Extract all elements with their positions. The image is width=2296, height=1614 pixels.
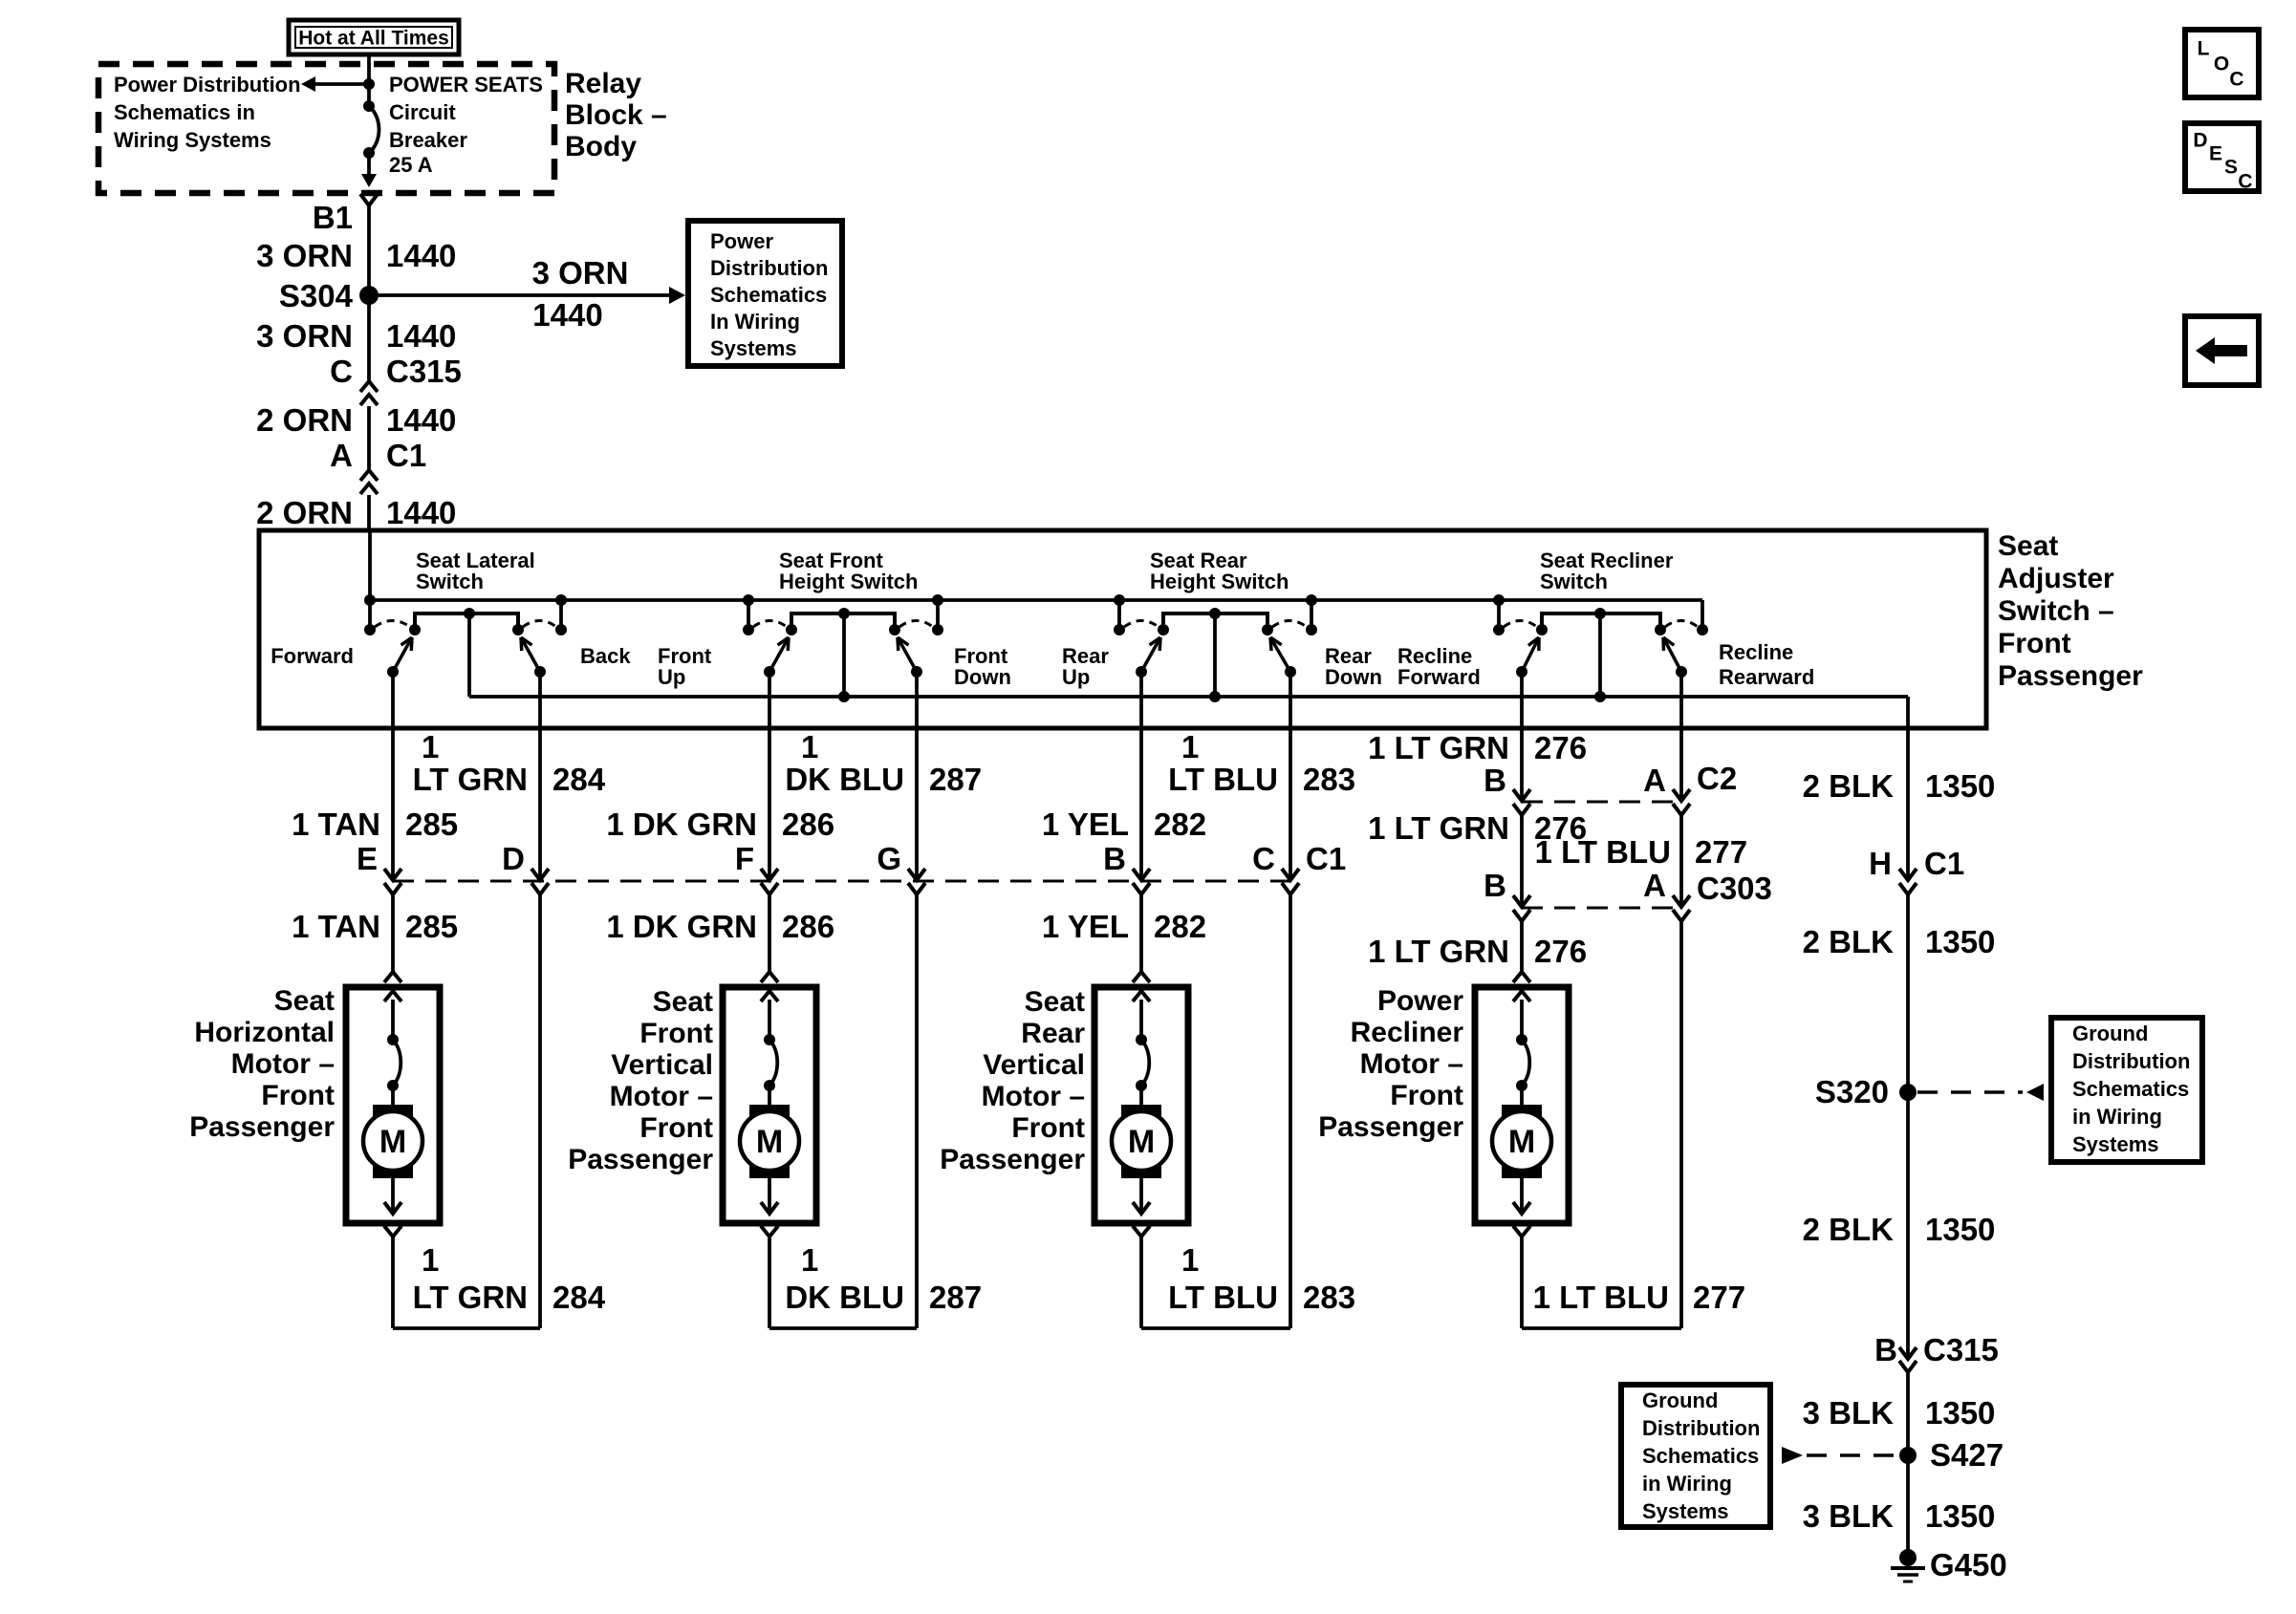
svg-text:A: A <box>1643 868 1666 903</box>
svg-text:Height Switch: Height Switch <box>1150 570 1289 593</box>
svg-text:C303: C303 <box>1697 871 1772 906</box>
svg-text:Systems: Systems <box>710 336 797 360</box>
svg-text:Up: Up <box>1062 665 1090 689</box>
svg-text:1350: 1350 <box>1925 768 1995 804</box>
svg-text:M: M <box>756 1124 783 1160</box>
svg-text:DK BLU: DK BLU <box>785 762 904 797</box>
svg-text:1 LT GRN: 1 LT GRN <box>1368 730 1509 765</box>
svg-text:Distribution: Distribution <box>2072 1049 2190 1073</box>
svg-text:Front: Front <box>639 1112 713 1144</box>
svg-text:Horizontal: Horizontal <box>194 1017 335 1048</box>
svg-text:Passenger: Passenger <box>1998 660 2143 692</box>
svg-text:Forward: Forward <box>271 644 354 668</box>
svg-text:Motor –: Motor – <box>610 1081 713 1112</box>
svg-text:in Wiring: in Wiring <box>2072 1105 2162 1129</box>
svg-text:G: G <box>877 841 901 876</box>
svg-text:C315: C315 <box>386 354 462 389</box>
svg-text:2 BLK: 2 BLK <box>1803 1212 1895 1247</box>
svg-text:G450: G450 <box>1930 1547 2007 1582</box>
svg-text:O: O <box>2214 54 2229 75</box>
svg-text:Body: Body <box>565 131 637 162</box>
svg-text:C: C <box>2238 171 2252 193</box>
svg-text:Power: Power <box>710 229 773 253</box>
svg-text:B: B <box>1874 1332 1897 1367</box>
svg-text:Height Switch: Height Switch <box>779 570 918 593</box>
svg-text:Up: Up <box>658 665 685 689</box>
svg-text:1: 1 <box>1181 1242 1199 1278</box>
svg-text:286: 286 <box>782 909 834 944</box>
svg-text:Schematics: Schematics <box>710 283 827 307</box>
svg-text:1 LT GRN: 1 LT GRN <box>1368 934 1509 969</box>
svg-text:3 ORN: 3 ORN <box>532 255 629 291</box>
svg-text:L: L <box>2198 38 2210 60</box>
svg-text:Power Distribution: Power Distribution <box>114 73 301 97</box>
svg-text:M: M <box>379 1124 406 1160</box>
svg-text:Seat: Seat <box>1998 530 2058 562</box>
svg-text:POWER SEATS: POWER SEATS <box>389 73 543 97</box>
svg-text:Motor –: Motor – <box>1360 1048 1463 1080</box>
svg-text:Rear: Rear <box>1021 1018 1085 1049</box>
svg-text:Front: Front <box>1390 1080 1463 1111</box>
svg-text:C: C <box>2229 69 2243 91</box>
svg-text:284: 284 <box>552 1280 606 1315</box>
svg-text:1 YEL: 1 YEL <box>1042 909 1129 944</box>
svg-text:1: 1 <box>422 1242 439 1278</box>
svg-text:Recline: Recline <box>1719 640 1793 664</box>
svg-text:M: M <box>1508 1124 1535 1160</box>
svg-text:in Wiring: in Wiring <box>1642 1472 1732 1496</box>
svg-text:277: 277 <box>1695 834 1747 870</box>
svg-text:Front: Front <box>1998 628 2071 659</box>
svg-text:282: 282 <box>1154 807 1206 842</box>
svg-text:Vertical: Vertical <box>983 1049 1085 1081</box>
svg-text:Seat: Seat <box>274 985 335 1017</box>
svg-text:Switch: Switch <box>1540 570 1608 593</box>
svg-text:B: B <box>1484 763 1506 798</box>
svg-text:3 BLK: 3 BLK <box>1803 1395 1895 1431</box>
svg-text:25 A: 25 A <box>389 153 433 177</box>
svg-text:C1: C1 <box>1306 841 1346 876</box>
svg-text:285: 285 <box>405 909 458 944</box>
svg-text:276: 276 <box>1534 730 1587 765</box>
svg-text:Passenger: Passenger <box>568 1144 713 1175</box>
svg-text:1: 1 <box>801 729 818 764</box>
svg-text:M: M <box>1128 1124 1155 1160</box>
svg-text:LT GRN: LT GRN <box>413 762 528 797</box>
svg-text:1350: 1350 <box>1925 1498 1995 1534</box>
svg-text:Hot at All Times: Hot at All Times <box>298 28 449 50</box>
svg-text:Seat: Seat <box>1025 986 1085 1018</box>
svg-text:LT BLU: LT BLU <box>1168 1280 1278 1315</box>
svg-text:Ground: Ground <box>2072 1022 2148 1045</box>
svg-text:283: 283 <box>1303 1280 1355 1315</box>
svg-text:C1: C1 <box>1924 846 1964 881</box>
svg-text:C1: C1 <box>386 438 426 473</box>
svg-text:Breaker: Breaker <box>389 128 467 152</box>
svg-text:1 LT BLU: 1 LT BLU <box>1535 834 1671 870</box>
svg-text:Systems: Systems <box>2072 1132 2159 1156</box>
svg-text:LT BLU: LT BLU <box>1168 762 1278 797</box>
svg-text:283: 283 <box>1303 762 1355 797</box>
svg-text:2 ORN: 2 ORN <box>256 402 353 438</box>
svg-text:Back: Back <box>580 644 631 668</box>
svg-text:3 ORN: 3 ORN <box>256 318 353 354</box>
svg-text:Passenger: Passenger <box>1318 1111 1463 1143</box>
svg-text:1440: 1440 <box>386 495 456 530</box>
svg-text:Ground: Ground <box>1642 1388 1718 1412</box>
svg-text:S: S <box>2224 157 2238 179</box>
svg-text:Forward: Forward <box>1397 665 1481 689</box>
svg-text:Distribution: Distribution <box>710 256 828 280</box>
svg-text:D: D <box>502 841 525 876</box>
svg-text:Schematics: Schematics <box>1642 1444 1759 1468</box>
svg-text:E: E <box>2209 143 2222 165</box>
svg-text:1440: 1440 <box>386 238 456 273</box>
svg-text:1 LT GRN: 1 LT GRN <box>1368 810 1509 846</box>
svg-text:Power: Power <box>1377 985 1463 1017</box>
svg-text:277: 277 <box>1693 1280 1745 1315</box>
svg-text:1440: 1440 <box>532 297 602 333</box>
svg-text:1 TAN: 1 TAN <box>292 807 380 842</box>
svg-text:B1: B1 <box>313 200 353 235</box>
svg-text:1: 1 <box>1181 729 1199 764</box>
svg-text:LT GRN: LT GRN <box>413 1280 528 1315</box>
svg-text:S427: S427 <box>1930 1437 2004 1473</box>
svg-text:1350: 1350 <box>1925 924 1995 959</box>
svg-text:Relay: Relay <box>565 68 641 99</box>
svg-text:Distribution: Distribution <box>1642 1416 1760 1440</box>
svg-text:B: B <box>1103 841 1126 876</box>
svg-text:Vertical: Vertical <box>611 1049 713 1081</box>
svg-text:Front: Front <box>261 1080 335 1111</box>
svg-text:A: A <box>1643 763 1666 798</box>
svg-text:Switch: Switch <box>416 570 484 593</box>
svg-text:2 BLK: 2 BLK <box>1803 768 1895 804</box>
svg-text:Motor –: Motor – <box>982 1081 1085 1112</box>
svg-text:1 TAN: 1 TAN <box>292 909 380 944</box>
svg-text:287: 287 <box>929 1280 982 1315</box>
svg-text:2 ORN: 2 ORN <box>256 495 353 530</box>
svg-text:C: C <box>1252 841 1275 876</box>
svg-text:DK BLU: DK BLU <box>785 1280 904 1315</box>
svg-text:Schematics in: Schematics in <box>114 100 255 124</box>
svg-text:287: 287 <box>929 762 982 797</box>
svg-text:3 BLK: 3 BLK <box>1803 1498 1895 1534</box>
svg-text:Passenger: Passenger <box>189 1111 335 1143</box>
svg-text:1: 1 <box>801 1242 818 1278</box>
svg-text:S304: S304 <box>279 278 354 313</box>
svg-text:S320: S320 <box>1815 1074 1889 1109</box>
svg-text:Adjuster: Adjuster <box>1998 563 2114 594</box>
svg-text:Front: Front <box>1011 1112 1085 1144</box>
svg-text:Schematics: Schematics <box>2072 1077 2189 1101</box>
svg-text:D: D <box>2193 130 2207 152</box>
svg-text:Circuit: Circuit <box>389 100 456 124</box>
svg-text:A: A <box>330 438 353 473</box>
svg-text:Passenger: Passenger <box>940 1144 1085 1175</box>
svg-text:Wiring Systems: Wiring Systems <box>114 128 271 152</box>
svg-text:282: 282 <box>1154 909 1206 944</box>
svg-text:Rearward: Rearward <box>1719 665 1814 689</box>
svg-text:284: 284 <box>552 762 606 797</box>
svg-text:Down: Down <box>954 665 1011 689</box>
svg-text:Seat: Seat <box>653 986 713 1018</box>
svg-text:286: 286 <box>782 807 834 842</box>
svg-text:1 YEL: 1 YEL <box>1042 807 1129 842</box>
svg-text:1350: 1350 <box>1925 1395 1995 1431</box>
svg-text:C: C <box>330 354 353 389</box>
svg-text:1440: 1440 <box>386 318 456 354</box>
svg-text:H: H <box>1869 846 1892 881</box>
svg-text:Recliner: Recliner <box>1351 1017 1464 1048</box>
svg-text:C2: C2 <box>1697 761 1737 796</box>
svg-text:Front: Front <box>639 1018 713 1049</box>
svg-text:Switch –: Switch – <box>1998 595 2114 627</box>
svg-text:3 ORN: 3 ORN <box>256 238 353 273</box>
svg-text:E: E <box>357 841 378 876</box>
svg-text:C315: C315 <box>1923 1332 1999 1367</box>
svg-text:1: 1 <box>422 729 439 764</box>
svg-text:F: F <box>735 841 754 876</box>
svg-text:2 BLK: 2 BLK <box>1803 924 1895 959</box>
svg-text:Motor –: Motor – <box>231 1048 335 1080</box>
svg-text:1350: 1350 <box>1925 1212 1995 1247</box>
svg-text:276: 276 <box>1534 934 1587 969</box>
svg-text:Block –: Block – <box>565 99 667 131</box>
svg-text:B: B <box>1484 868 1506 903</box>
svg-text:285: 285 <box>405 807 458 842</box>
svg-text:1 LT BLU: 1 LT BLU <box>1533 1280 1669 1315</box>
svg-text:1 DK GRN: 1 DK GRN <box>606 807 757 842</box>
svg-text:Systems: Systems <box>1642 1499 1729 1523</box>
svg-text:1 DK GRN: 1 DK GRN <box>606 909 757 944</box>
svg-text:In Wiring: In Wiring <box>710 310 800 334</box>
svg-text:1440: 1440 <box>386 402 456 438</box>
svg-text:Down: Down <box>1325 665 1382 689</box>
